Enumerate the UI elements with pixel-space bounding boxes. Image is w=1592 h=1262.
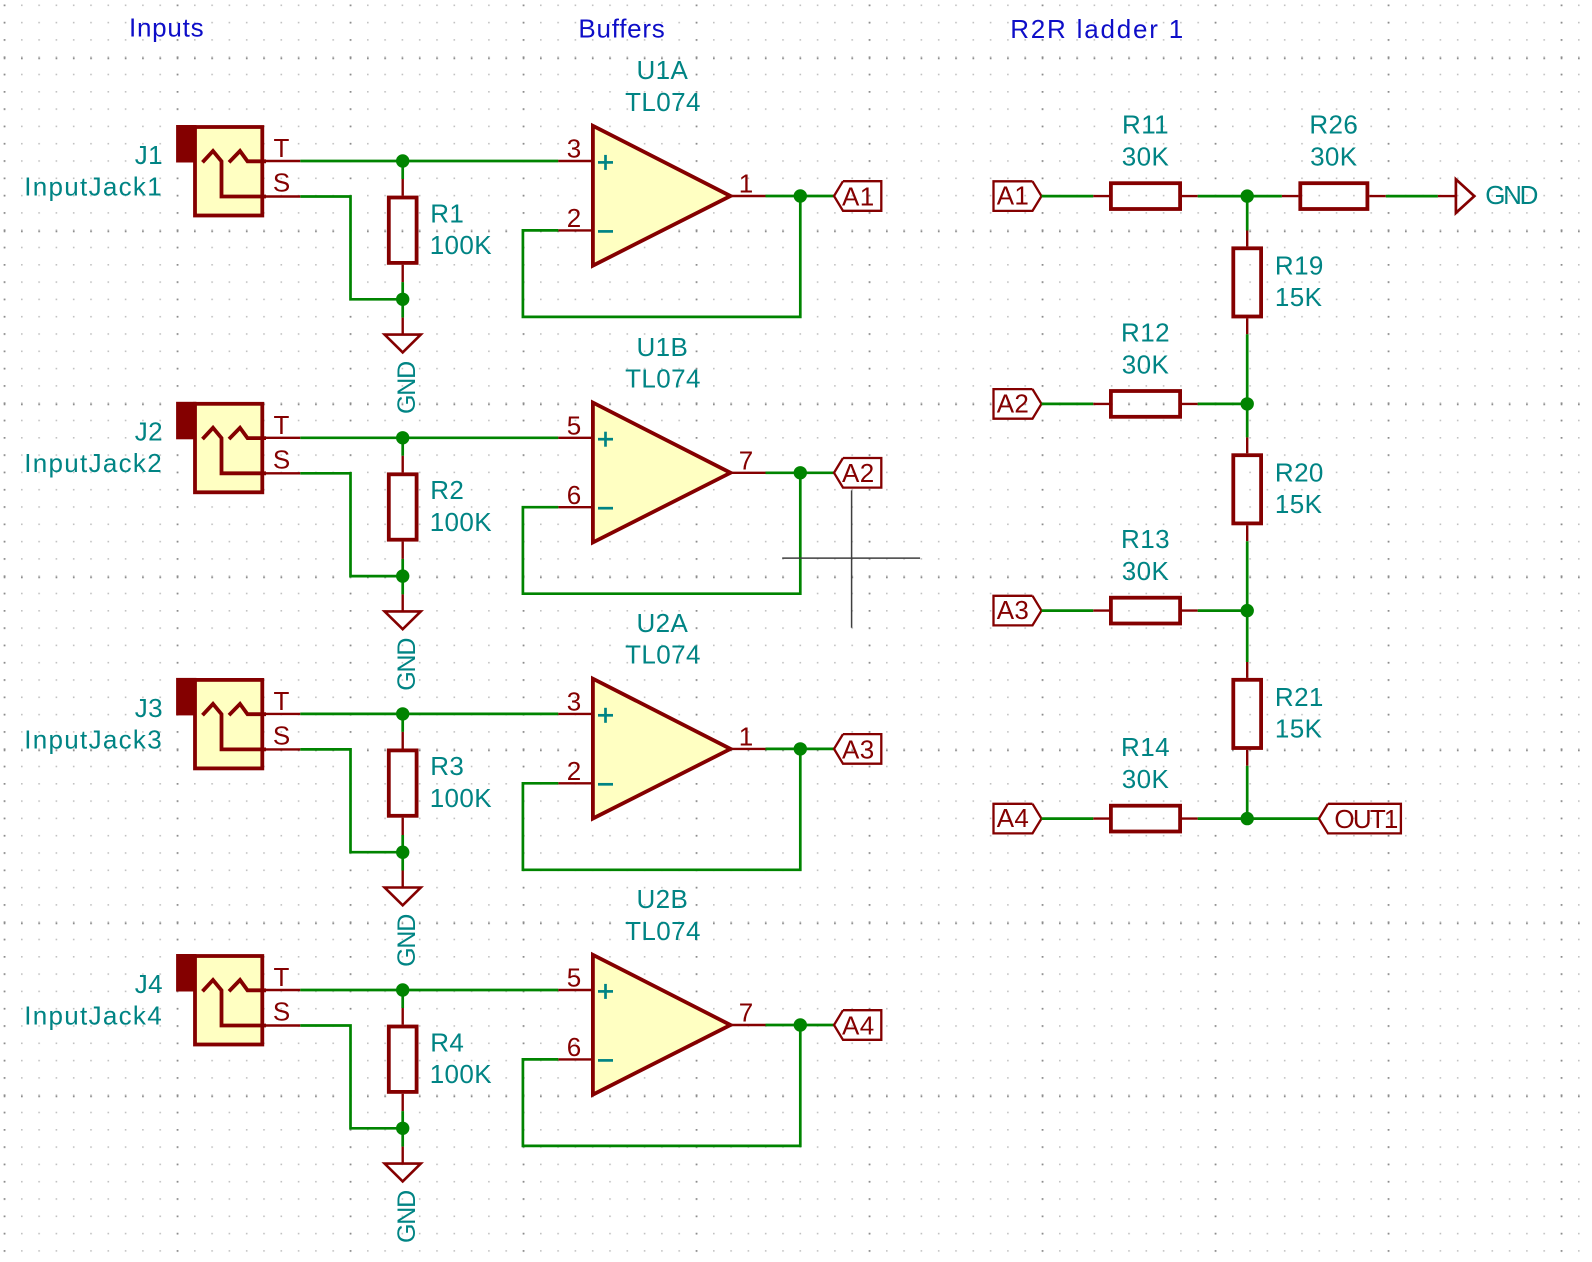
svg-text:GND: GND xyxy=(393,1191,421,1243)
svg-text:GND: GND xyxy=(393,362,421,414)
svg-text:S: S xyxy=(273,721,291,751)
svg-text:InputJack2: InputJack2 xyxy=(24,448,163,478)
svg-text:A3: A3 xyxy=(842,734,875,764)
svg-text:GND: GND xyxy=(1485,180,1537,210)
svg-text:7: 7 xyxy=(739,998,754,1028)
svg-text:100K: 100K xyxy=(430,507,493,537)
svg-text:J3: J3 xyxy=(135,693,163,723)
svg-text:TL074: TL074 xyxy=(625,364,701,394)
svg-text:InputJack3: InputJack3 xyxy=(24,724,163,754)
svg-text:6: 6 xyxy=(567,1032,582,1062)
svg-text:R20: R20 xyxy=(1275,458,1324,488)
svg-text:A2: A2 xyxy=(842,458,875,488)
svg-text:R11: R11 xyxy=(1122,110,1169,140)
svg-text:R1: R1 xyxy=(430,198,464,228)
svg-text:Buffers: Buffers xyxy=(578,13,665,43)
svg-text:2: 2 xyxy=(567,756,582,786)
svg-text:A3: A3 xyxy=(997,595,1030,625)
svg-text:TL074: TL074 xyxy=(625,87,701,117)
svg-text:InputJack4: InputJack4 xyxy=(24,1000,163,1030)
svg-text:15K: 15K xyxy=(1275,714,1323,744)
svg-text:30K: 30K xyxy=(1122,349,1170,379)
svg-text:R4: R4 xyxy=(430,1027,464,1057)
svg-text:InputJack1: InputJack1 xyxy=(24,171,163,201)
svg-text:R2: R2 xyxy=(430,475,464,505)
svg-text:100K: 100K xyxy=(430,783,493,813)
svg-text:J4: J4 xyxy=(135,969,163,999)
svg-text:1: 1 xyxy=(739,169,754,199)
svg-text:A4: A4 xyxy=(997,803,1030,833)
svg-text:6: 6 xyxy=(567,480,582,510)
svg-text:30K: 30K xyxy=(1310,142,1358,172)
svg-text:S: S xyxy=(273,997,291,1027)
svg-text:T: T xyxy=(274,962,290,992)
svg-text:30K: 30K xyxy=(1122,556,1170,586)
svg-text:R13: R13 xyxy=(1121,524,1170,554)
svg-text:R12: R12 xyxy=(1121,317,1170,347)
svg-text:GND: GND xyxy=(393,915,421,967)
svg-text:GND: GND xyxy=(393,639,421,691)
svg-text:5: 5 xyxy=(567,410,582,440)
svg-text:3: 3 xyxy=(567,134,582,164)
svg-text:J2: J2 xyxy=(135,417,163,447)
svg-text:100K: 100K xyxy=(430,1059,493,1089)
svg-text:100K: 100K xyxy=(430,230,493,260)
svg-text:S: S xyxy=(273,445,291,475)
svg-text:U2B: U2B xyxy=(637,884,689,914)
svg-text:S: S xyxy=(273,168,291,198)
svg-text:A1: A1 xyxy=(842,181,875,211)
svg-text:Inputs: Inputs xyxy=(129,13,204,43)
svg-text:3: 3 xyxy=(567,687,582,717)
svg-text:A2: A2 xyxy=(997,388,1030,418)
svg-text:U1A: U1A xyxy=(637,55,689,85)
svg-text:U2A: U2A xyxy=(637,608,689,638)
svg-text:R26: R26 xyxy=(1309,110,1358,140)
svg-text:R3: R3 xyxy=(430,751,464,781)
svg-text:5: 5 xyxy=(567,963,582,993)
svg-text:T: T xyxy=(274,686,290,716)
svg-text:R21: R21 xyxy=(1275,682,1324,712)
svg-text:15K: 15K xyxy=(1275,282,1323,312)
svg-text:TL074: TL074 xyxy=(625,640,701,670)
svg-text:7: 7 xyxy=(739,445,754,475)
svg-text:T: T xyxy=(274,410,290,440)
svg-text:TL074: TL074 xyxy=(625,916,701,946)
svg-text:30K: 30K xyxy=(1122,142,1170,172)
svg-text:15K: 15K xyxy=(1275,489,1323,519)
svg-text:30K: 30K xyxy=(1122,764,1170,794)
svg-text:U1B: U1B xyxy=(637,332,689,362)
svg-text:R14: R14 xyxy=(1121,732,1170,762)
svg-text:J1: J1 xyxy=(135,140,163,170)
svg-text:A1: A1 xyxy=(997,181,1030,211)
svg-text:OUT1: OUT1 xyxy=(1334,804,1397,834)
svg-text:2: 2 xyxy=(567,203,582,233)
svg-text:R2R ladder 1: R2R ladder 1 xyxy=(1010,14,1185,44)
svg-text:1: 1 xyxy=(739,721,754,751)
svg-text:A4: A4 xyxy=(842,1010,875,1040)
svg-text:T: T xyxy=(274,133,290,163)
svg-text:R19: R19 xyxy=(1275,251,1324,281)
